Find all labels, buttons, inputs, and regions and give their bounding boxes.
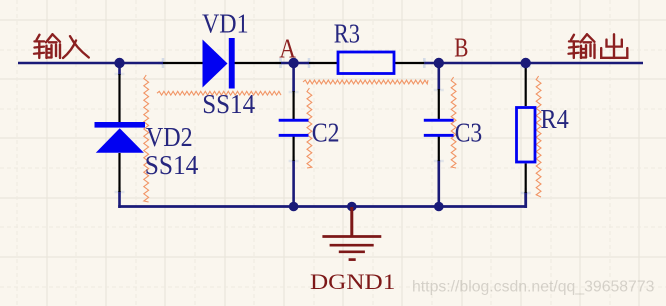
designator VD1 [202, 7, 249, 38]
diode VD2 (SS14) body [95, 122, 146, 153]
designator VD2 [146, 121, 193, 152]
value SS14 of VD2 [145, 149, 199, 180]
svg-text:VD1: VD1 [202, 7, 249, 38]
designator R4 [540, 103, 569, 134]
junction at top of VD2 branch [114, 58, 124, 68]
compile warning zigzag under resistor R3 [303, 80, 428, 84]
net label A [279, 32, 296, 63]
net label 输入 (input) [34, 34, 89, 58]
compile warning zigzag beside resistor R4 [536, 76, 541, 197]
svg-text:A: A [279, 32, 296, 63]
compile warning zigzag beside capacitor C2 [307, 88, 312, 168]
designator R3 [334, 18, 360, 49]
svg-text:C2: C2 [312, 117, 340, 148]
pin connection markers [289, 156, 299, 166]
wire: R3 right pin through node B to output [424, 62, 643, 65]
capacitor C2 plates [279, 119, 309, 137]
pin: VD2 cathode pin [118, 74, 120, 123]
pin: C2 top pin [293, 91, 295, 119]
wire: VD2 anode pin down to bottom rail [118, 191, 121, 208]
net label B [454, 32, 468, 63]
resistor R3 body [338, 52, 394, 74]
pin: VD1 anode pin (pin 1) [163, 62, 203, 64]
compile warning zigzag beside diode VD2 [144, 75, 149, 202]
svg-text:C3: C3 [455, 117, 483, 148]
junction node A [288, 58, 298, 68]
designator C3 [455, 117, 483, 148]
svg-text:SS14: SS14 [202, 88, 255, 119]
pin: R4 bottom pin [525, 164, 527, 194]
junction at top of R4 branch [521, 58, 531, 68]
resistor R4 body [517, 108, 536, 163]
wire: stub from top junction down to VD2 cathode pin [118, 63, 121, 75]
wire: node B stub down to C3 top pin [437, 63, 440, 90]
wire: C3 bottom pin down to bottom rail [437, 160, 440, 207]
compile warning zigzag beside capacitor C3 [451, 77, 456, 168]
wire: input to VD1 anode pin [18, 62, 163, 65]
ground power port DGND1 [322, 207, 381, 260]
wire: VD1 cathode pin to node A to R3 left pin [281, 62, 309, 65]
wire: top junction stub down to R4 top pin [524, 63, 527, 68]
capacitor C3 plates [424, 119, 454, 137]
pin: VD2 anode pin [118, 153, 120, 192]
junction node B [434, 58, 444, 68]
svg-text:DGND1: DGND1 [310, 269, 395, 294]
watermark [412, 279, 655, 296]
pin: VD1 cathode pin (pin 2) [235, 62, 282, 64]
svg-text:R3: R3 [334, 18, 360, 49]
pin: C3 bottom pin [438, 136, 440, 161]
pin: C2 bottom pin [293, 136, 295, 161]
pin: R3 left pin [309, 62, 337, 64]
svg-text:R4: R4 [540, 103, 569, 134]
value SS14 of VD1 [202, 88, 255, 119]
junction C2 to bottom rail [289, 202, 299, 212]
compile warning zigzag under diode VD1 [157, 91, 281, 95]
designator C2 [312, 117, 340, 148]
wire: C2 bottom pin down to bottom rail [292, 160, 295, 207]
pin: R4 top pin [525, 67, 527, 106]
net label 输出 (output) [569, 34, 628, 58]
svg-text:VD2: VD2 [146, 121, 193, 152]
ground net name DGND1 [310, 269, 395, 294]
wire: bottom ground rail [118, 205, 527, 208]
pin: C3 top pin [438, 89, 440, 119]
junction ground to bottom rail [347, 202, 357, 212]
svg-text:SS14: SS14 [145, 149, 199, 180]
diode VD1 (SS14) body [203, 38, 235, 89]
wire: node A stub down to C2 top pin [292, 63, 295, 92]
svg-text:B: B [454, 32, 468, 63]
svg-text:https://blog.csdn.net/qq_39658: https://blog.csdn.net/qq_39658773 [412, 279, 655, 296]
pin: R3 right pin [395, 62, 424, 64]
wire: R4 bottom pin down to bottom rail corner [524, 192, 527, 208]
junction C3 to bottom rail [434, 202, 444, 212]
